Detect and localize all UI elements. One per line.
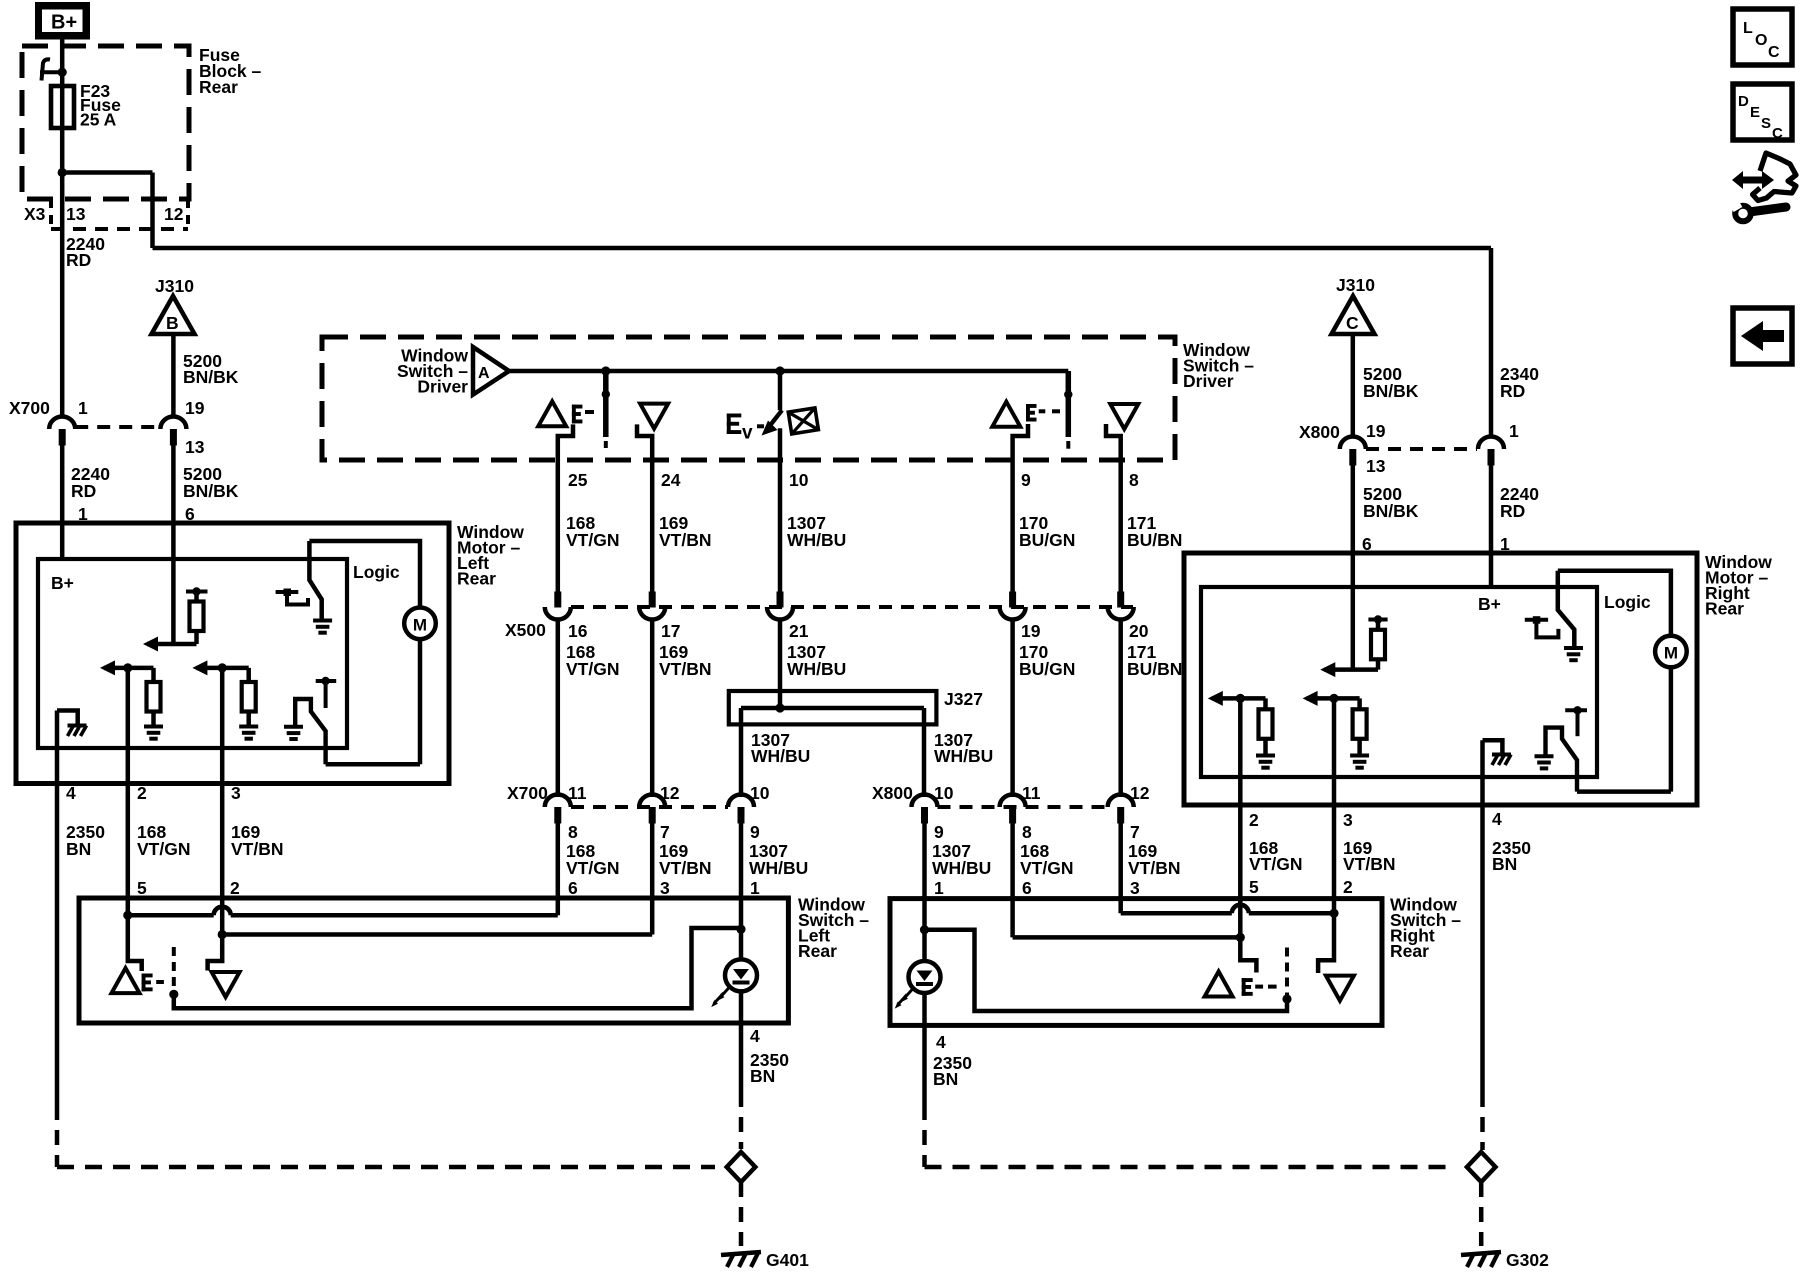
svg-text:WH/BU: WH/BU (932, 858, 991, 878)
svg-text:3: 3 (660, 878, 670, 898)
svg-text:BU/BN: BU/BN (1127, 530, 1182, 550)
svg-text:19: 19 (185, 398, 205, 418)
svg-text:BN/BK: BN/BK (1363, 501, 1419, 521)
svg-text:WH/BU: WH/BU (934, 746, 993, 766)
svg-text:VT/GN: VT/GN (566, 659, 619, 679)
svg-text:19: 19 (1366, 421, 1386, 441)
svg-text:4: 4 (1492, 809, 1502, 829)
svg-text:1: 1 (78, 398, 88, 418)
svg-text:24: 24 (661, 470, 681, 490)
svg-text:4: 4 (750, 1026, 760, 1046)
svg-text:v: v (742, 423, 753, 444)
svg-text:E: E (1750, 104, 1760, 121)
svg-text:RD: RD (1500, 501, 1525, 521)
svg-text:10: 10 (789, 470, 809, 490)
svg-text:BN: BN (66, 839, 91, 859)
svg-text:3: 3 (231, 783, 241, 803)
svg-text:8: 8 (568, 822, 578, 842)
svg-text:6: 6 (568, 878, 578, 898)
svg-text:9: 9 (750, 822, 760, 842)
svg-text:9: 9 (1021, 470, 1031, 490)
svg-text:7: 7 (660, 822, 670, 842)
svg-text:25 A: 25 A (80, 110, 117, 130)
svg-text:RD: RD (1500, 381, 1525, 401)
svg-text:WH/BU: WH/BU (787, 659, 846, 679)
svg-text:M: M (413, 616, 427, 635)
svg-text:Rear: Rear (1390, 941, 1429, 961)
svg-text:J310: J310 (1336, 275, 1375, 295)
svg-text:BU/GN: BU/GN (1019, 530, 1075, 550)
svg-text:X700: X700 (507, 783, 548, 803)
svg-text:1: 1 (1509, 421, 1519, 441)
svg-text:3: 3 (1130, 878, 1140, 898)
svg-text:BU/GN: BU/GN (1019, 659, 1075, 679)
svg-text:12: 12 (164, 204, 184, 224)
svg-text:RD: RD (71, 481, 96, 501)
svg-text:B: B (166, 313, 179, 333)
svg-text:16: 16 (568, 621, 588, 641)
svg-text:Rear: Rear (199, 77, 238, 97)
svg-text:1: 1 (750, 878, 760, 898)
svg-text:BN/BK: BN/BK (1363, 381, 1419, 401)
svg-text:2: 2 (1249, 810, 1259, 830)
svg-text:RD: RD (66, 250, 91, 270)
svg-text:Rear: Rear (1705, 599, 1744, 619)
svg-text:13: 13 (185, 437, 205, 457)
svg-text:A: A (478, 365, 490, 382)
svg-text:M: M (1664, 644, 1678, 663)
svg-text:4: 4 (66, 783, 76, 803)
svg-text:5: 5 (1249, 877, 1259, 897)
svg-text:BN/BK: BN/BK (183, 481, 239, 501)
svg-text:B+: B+ (51, 12, 77, 34)
svg-text:BN: BN (933, 1069, 958, 1089)
svg-text:8: 8 (1022, 822, 1032, 842)
svg-text:O: O (1755, 32, 1767, 49)
svg-text:21: 21 (789, 621, 809, 641)
svg-text:7: 7 (1130, 822, 1140, 842)
svg-text:X800: X800 (1299, 422, 1340, 442)
svg-text:13: 13 (1366, 456, 1386, 476)
svg-text:Logic: Logic (353, 562, 400, 582)
svg-text:C: C (1346, 313, 1359, 333)
svg-text:BN/BK: BN/BK (183, 367, 239, 387)
svg-text:BU/BN: BU/BN (1127, 659, 1182, 679)
svg-text:Rear: Rear (457, 569, 496, 589)
svg-text:D: D (1738, 93, 1749, 110)
svg-text:BN: BN (750, 1066, 775, 1086)
svg-text:3: 3 (1343, 810, 1353, 830)
svg-text:C: C (1768, 44, 1780, 61)
svg-text:X700: X700 (9, 398, 50, 418)
svg-text:S: S (1761, 115, 1771, 132)
svg-text:G401: G401 (766, 1250, 809, 1270)
svg-text:VT/GN: VT/GN (1249, 854, 1302, 874)
svg-text:B+: B+ (1478, 594, 1501, 614)
svg-text:VT/BN: VT/BN (659, 530, 712, 550)
svg-text:2: 2 (137, 783, 147, 803)
svg-text:25: 25 (568, 470, 588, 490)
svg-text:8: 8 (1129, 470, 1139, 490)
svg-text:VT/BN: VT/BN (659, 659, 712, 679)
svg-text:X500: X500 (505, 620, 546, 640)
svg-text:B+: B+ (51, 573, 74, 593)
svg-text:VT/GN: VT/GN (566, 530, 619, 550)
svg-text:5: 5 (137, 878, 147, 898)
svg-text:13: 13 (66, 204, 86, 224)
svg-text:J327: J327 (944, 689, 983, 709)
svg-text:6: 6 (1022, 878, 1032, 898)
svg-text:17: 17 (661, 621, 680, 641)
svg-text:VT/BN: VT/BN (659, 858, 712, 878)
svg-text:BN: BN (1492, 854, 1517, 874)
svg-text:VT/BN: VT/BN (1128, 858, 1181, 878)
svg-text:4: 4 (936, 1032, 946, 1052)
svg-text:VT/BN: VT/BN (1343, 854, 1396, 874)
svg-text:WH/BU: WH/BU (751, 746, 810, 766)
svg-text:C: C (1772, 125, 1783, 142)
svg-text:Driver: Driver (417, 377, 468, 397)
svg-text:VT/GN: VT/GN (1020, 858, 1073, 878)
svg-text:VT/GN: VT/GN (137, 839, 190, 859)
svg-text:Logic: Logic (1604, 592, 1651, 612)
svg-text:1: 1 (934, 878, 944, 898)
svg-text:2: 2 (230, 878, 240, 898)
svg-text:19: 19 (1021, 621, 1041, 641)
svg-text:X3: X3 (24, 204, 46, 224)
svg-text:VT/GN: VT/GN (566, 858, 619, 878)
svg-text:WH/BU: WH/BU (749, 858, 808, 878)
svg-text:VT/BN: VT/BN (231, 839, 284, 859)
svg-text:Rear: Rear (798, 941, 837, 961)
svg-text:Driver: Driver (1183, 371, 1234, 391)
svg-text:9: 9 (934, 822, 944, 842)
svg-text:G302: G302 (1506, 1250, 1549, 1270)
svg-text:J310: J310 (155, 276, 194, 296)
svg-text:WH/BU: WH/BU (787, 530, 846, 550)
svg-text:20: 20 (1129, 621, 1149, 641)
svg-text:2: 2 (1343, 877, 1353, 897)
svg-text:X800: X800 (872, 783, 913, 803)
svg-text:L: L (1743, 20, 1753, 37)
